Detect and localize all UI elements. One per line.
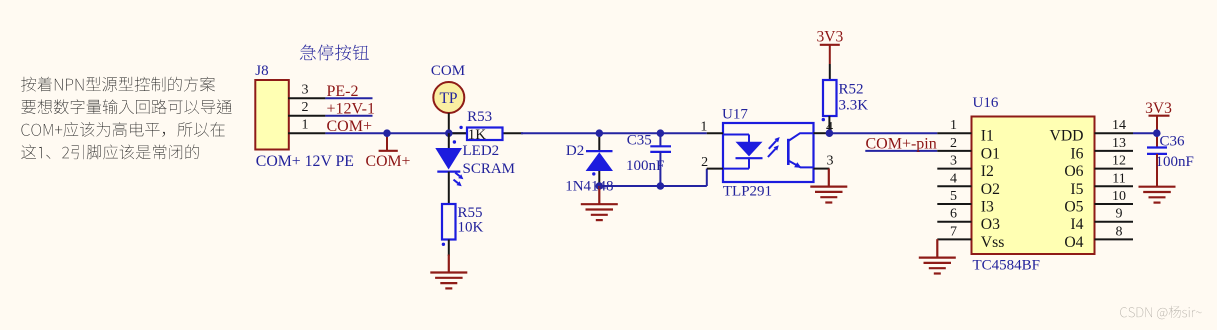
U16 pin 3 (I2) bbox=[937, 168, 971, 170]
diode D2 1N4148 bbox=[598, 133, 600, 152]
wire bottom rail bbox=[599, 185, 707, 187]
wire U17 pin4 to U16 pin1 bbox=[829, 132, 937, 134]
svg-text:11: 11 bbox=[1112, 171, 1125, 186]
svg-text:PE-2: PE-2 bbox=[327, 83, 359, 100]
resistor R52 bbox=[823, 80, 837, 116]
LED LED2 SCRAM bbox=[448, 133, 450, 148]
test point TP COM bbox=[433, 82, 464, 113]
label 急停按钮 bbox=[300, 44, 369, 60]
svg-text:100nF: 100nF bbox=[1156, 154, 1194, 170]
IC U16 TC4584BF box bbox=[972, 117, 1095, 255]
svg-text:C36: C36 bbox=[1160, 134, 1186, 150]
U17 pin 4 bbox=[814, 132, 830, 134]
U17 pin 2 bbox=[707, 168, 723, 170]
U17 pin 1 bbox=[707, 132, 723, 134]
svg-text:TLP291: TLP291 bbox=[723, 184, 772, 200]
junction C35 top bbox=[657, 129, 665, 137]
power port COM+ bbox=[386, 133, 388, 151]
svg-text:100nF: 100nF bbox=[626, 158, 664, 174]
annotation text note bbox=[21, 77, 215, 92]
svg-text:U16: U16 bbox=[973, 95, 999, 111]
svg-text:COM+-pin: COM+-pin bbox=[866, 136, 937, 153]
connector J8 bbox=[255, 80, 288, 150]
svg-text:3.3K: 3.3K bbox=[839, 98, 869, 114]
svg-text:U17: U17 bbox=[722, 106, 748, 122]
svg-text:COM+: COM+ bbox=[366, 153, 411, 170]
svg-text:1K: 1K bbox=[468, 127, 487, 143]
U16 pin 2 (O1) bbox=[937, 150, 971, 152]
svg-text:O1: O1 bbox=[981, 145, 1000, 162]
svg-text:O2: O2 bbox=[981, 181, 1000, 198]
svg-text:14: 14 bbox=[1112, 118, 1126, 133]
svg-text:2: 2 bbox=[302, 100, 309, 115]
U16 pin 10 (O5) bbox=[1095, 203, 1134, 205]
wire COM+-pin stub bbox=[865, 150, 937, 152]
svg-text:COM: COM bbox=[431, 63, 465, 79]
wire COM+ rail bbox=[325, 132, 467, 134]
svg-text:4: 4 bbox=[950, 171, 957, 186]
svg-text:C35: C35 bbox=[627, 132, 652, 148]
J8 pin 1 bbox=[288, 132, 325, 134]
svg-text:8: 8 bbox=[1116, 224, 1123, 239]
svg-text:2: 2 bbox=[701, 155, 708, 170]
wire +12V-1 bbox=[325, 115, 372, 117]
svg-text:5: 5 bbox=[950, 189, 957, 204]
U16 pin 11 (I5) bbox=[1095, 185, 1134, 187]
ground at U16 Vss pin 7 bbox=[936, 239, 938, 257]
svg-text:TP: TP bbox=[439, 90, 457, 107]
resistor R53 bbox=[467, 128, 503, 141]
ground below R55 bbox=[448, 255, 450, 273]
svg-text:3V3: 3V3 bbox=[1145, 100, 1172, 117]
svg-text:O5: O5 bbox=[1064, 199, 1083, 216]
U16 pin 12 (O6) bbox=[1095, 168, 1134, 170]
U16 pin 13 (I6) bbox=[1095, 150, 1134, 152]
svg-text:I4: I4 bbox=[1070, 216, 1083, 233]
J8 pin 3 bbox=[288, 97, 325, 99]
ground at U17 pin 3 bbox=[828, 169, 830, 187]
svg-text:R52: R52 bbox=[839, 82, 864, 98]
svg-text:TC4584BF: TC4584BF bbox=[973, 258, 1041, 274]
svg-text:1N4148: 1N4148 bbox=[565, 179, 613, 195]
U16 pin 9 (I4) bbox=[1095, 221, 1134, 223]
svg-text:3V3: 3V3 bbox=[817, 28, 844, 45]
U17 internal LED bbox=[723, 134, 749, 136]
capacitor C36 100nF bbox=[1147, 146, 1167, 148]
watermark CSDN bbox=[1120, 306, 1201, 319]
ground below D2 bbox=[598, 186, 600, 204]
svg-text:3: 3 bbox=[302, 83, 309, 98]
U17 pin 3 bbox=[814, 168, 830, 170]
svg-text:9: 9 bbox=[1116, 207, 1123, 222]
U16 pin 4 (O2) bbox=[937, 185, 971, 187]
wire PE-2 bbox=[325, 97, 372, 99]
svg-text:R53: R53 bbox=[467, 109, 492, 125]
svg-text:13: 13 bbox=[1112, 136, 1126, 151]
svg-text:I3: I3 bbox=[981, 199, 994, 216]
svg-text:7: 7 bbox=[950, 224, 957, 239]
svg-text:3: 3 bbox=[827, 154, 834, 169]
svg-text:COM+ 12V PE: COM+ 12V PE bbox=[256, 153, 354, 170]
resistor R55 bbox=[442, 204, 456, 240]
junction COM+ port bbox=[383, 129, 391, 137]
U17 emission arrows bbox=[769, 141, 777, 149]
svg-text:+12V-1: +12V-1 bbox=[327, 101, 375, 118]
svg-text:3: 3 bbox=[950, 154, 957, 169]
svg-text:12: 12 bbox=[1112, 154, 1126, 169]
ground below C36 bbox=[1156, 185, 1158, 188]
U16 pin 1 (I1) bbox=[937, 132, 971, 134]
svg-text:1: 1 bbox=[302, 118, 309, 133]
svg-text:10: 10 bbox=[1112, 189, 1126, 204]
svg-text:I1: I1 bbox=[981, 128, 994, 145]
svg-text:I6: I6 bbox=[1070, 145, 1083, 162]
op-amp U17 TLP291 box bbox=[723, 123, 814, 182]
junction C36 bbox=[1153, 129, 1161, 137]
svg-text:1: 1 bbox=[700, 120, 707, 135]
U16 pin 6 (O3) bbox=[937, 221, 971, 223]
junction C35 bottom bbox=[657, 182, 665, 190]
U16 pin 8 (O4) bbox=[1095, 238, 1134, 240]
svg-text:10K: 10K bbox=[458, 220, 484, 236]
U17 phototransistor bbox=[787, 139, 790, 165]
junction D2 bottom bbox=[596, 182, 604, 190]
U16 pin 5 (I3) bbox=[937, 203, 971, 205]
U16 pin 14 (VDD) bbox=[1095, 132, 1134, 134]
svg-text:I5: I5 bbox=[1070, 181, 1083, 198]
svg-text:SCRAM: SCRAM bbox=[463, 161, 516, 177]
svg-text:6: 6 bbox=[950, 207, 957, 222]
junction R52 / U17 pin4 bbox=[826, 129, 834, 137]
U16 pin 7 (Vss) bbox=[937, 238, 971, 240]
svg-text:2: 2 bbox=[950, 136, 957, 151]
svg-text:J8: J8 bbox=[255, 63, 268, 79]
svg-text:O3: O3 bbox=[981, 216, 1000, 233]
junction D2 top bbox=[596, 129, 604, 137]
svg-text:Vss: Vss bbox=[981, 234, 1005, 251]
svg-text:I2: I2 bbox=[981, 163, 994, 180]
junction TP bbox=[445, 129, 453, 137]
svg-text:LED2: LED2 bbox=[463, 143, 500, 159]
svg-text:O4: O4 bbox=[1064, 234, 1083, 251]
wire U16 pin14 to 3V3 bbox=[1133, 132, 1157, 134]
svg-text:VDD: VDD bbox=[1050, 128, 1084, 145]
svg-text:O6: O6 bbox=[1064, 163, 1083, 180]
svg-text:1: 1 bbox=[950, 118, 957, 133]
capacitor C35 100nF bbox=[659, 133, 661, 146]
svg-text:D2: D2 bbox=[566, 143, 584, 159]
J8 pin 2 bbox=[288, 115, 325, 117]
